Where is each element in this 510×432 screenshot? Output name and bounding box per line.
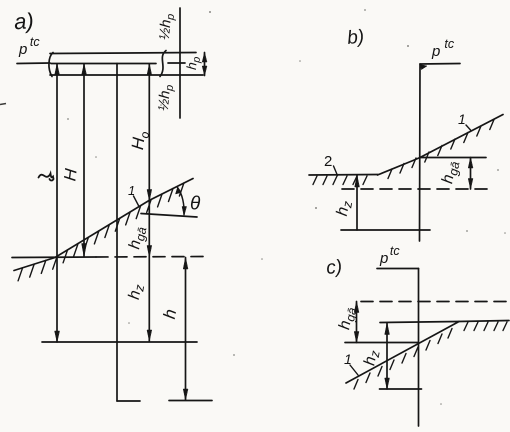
ground line solid part (a) (12, 256, 96, 259)
arrow up H (top) (82, 64, 87, 75)
bottom line (c) (380, 388, 422, 390)
slab break squiggle (160, 51, 166, 77)
ground hatching right (c) (464, 322, 507, 331)
slab top edge (50, 53, 196, 54)
arrow down hz (c) (385, 378, 390, 389)
dimension line h (a) (185, 258, 187, 401)
crossing level line (b) (420, 157, 486, 159)
arrow up hgd (c) (354, 302, 359, 313)
svg-text:2: 2 (324, 153, 332, 170)
dimension hgd (c) (356, 302, 358, 343)
leader of label 2 (b) (334, 166, 338, 176)
hp arrow up (202, 53, 207, 63)
arrow down at ground line (147, 246, 152, 258)
svg-text:θ: θ (190, 194, 201, 215)
arrow up h (top) (183, 258, 188, 270)
svg-text:a): a) (13, 8, 34, 34)
dimension hz (b) (356, 176, 358, 231)
slab mid line (p^tc level) (51, 62, 185, 65)
arrow down h (bottom) (183, 389, 188, 400)
dimension line Ho/hgd/hz (148, 64, 150, 341)
slope line (a) (14, 179, 193, 271)
pile axis line (116, 64, 118, 402)
label l (cursive ell) (39, 174, 54, 181)
leader line at p^tc level (17, 62, 50, 65)
dashed line (c) (361, 301, 509, 303)
leader of label 1 (c) (350, 365, 358, 375)
paper speckles (67, 9, 506, 405)
arrow down hgd (c) (354, 332, 359, 343)
slope hatching (a) (18, 183, 184, 281)
leader of label 1 (a) (134, 196, 140, 207)
slope hatching (b) (388, 120, 494, 179)
leader of label 1 (b) (466, 125, 471, 130)
arrow up hz (b) (355, 176, 360, 188)
arrow up hz (c) (385, 323, 390, 335)
svg-text:1: 1 (344, 351, 352, 367)
svg-text:c): c) (325, 256, 343, 279)
bottom line (b) (341, 229, 430, 231)
pile line (c) (418, 269, 420, 427)
arrow down at slope crossing (147, 190, 152, 201)
slope line (c) (346, 322, 459, 384)
bottom line 1 (a) (42, 341, 197, 343)
dimension line l (56, 64, 58, 342)
dimension hz (c) (386, 323, 388, 389)
dimension hgd (b) (470, 158, 472, 190)
ground line dashed part (a) (96, 256, 208, 259)
arrow down l (bottom) (55, 331, 60, 342)
hp dimension line (204, 53, 206, 76)
arrow down at bottom line (147, 330, 152, 341)
theta arc head dot (176, 188, 182, 195)
stray mark at left margin (0, 104, 6, 105)
ground line (b) (309, 174, 378, 177)
theta baseline (141, 214, 197, 218)
slab left break edge (49, 53, 53, 77)
svg-text:b): b) (346, 26, 365, 49)
ground crest line (c) (380, 321, 509, 323)
arrow down H (bottom) (82, 244, 87, 257)
half-hp dimension line (179, 8, 181, 118)
dimension line H (83, 64, 85, 257)
theta arc arrowhead down (182, 207, 186, 216)
arrow down hgd (b) (468, 179, 473, 190)
arrow up Ho (top) (147, 64, 152, 75)
slab bottom edge (50, 74, 203, 76)
pile top bar (c) (377, 268, 419, 270)
ground hatching (b) (313, 176, 367, 185)
pile top bar (b) (420, 63, 460, 66)
dashed line (b) (342, 188, 491, 190)
load tick at pile head (b) (420, 65, 427, 70)
theta arc arrow (178, 188, 185, 215)
pile line (b) (419, 64, 422, 241)
pile foot (117, 400, 140, 402)
arrow up hgd (b) (468, 158, 473, 169)
slope hatching (c) (354, 329, 452, 390)
svg-text:1: 1 (458, 111, 466, 127)
slope line (b) (378, 115, 504, 176)
arrow up l (top) (55, 64, 60, 75)
crossing level line (c) (345, 342, 418, 344)
hp arrow down (202, 66, 207, 76)
bottom line 2 (a) (169, 400, 212, 402)
